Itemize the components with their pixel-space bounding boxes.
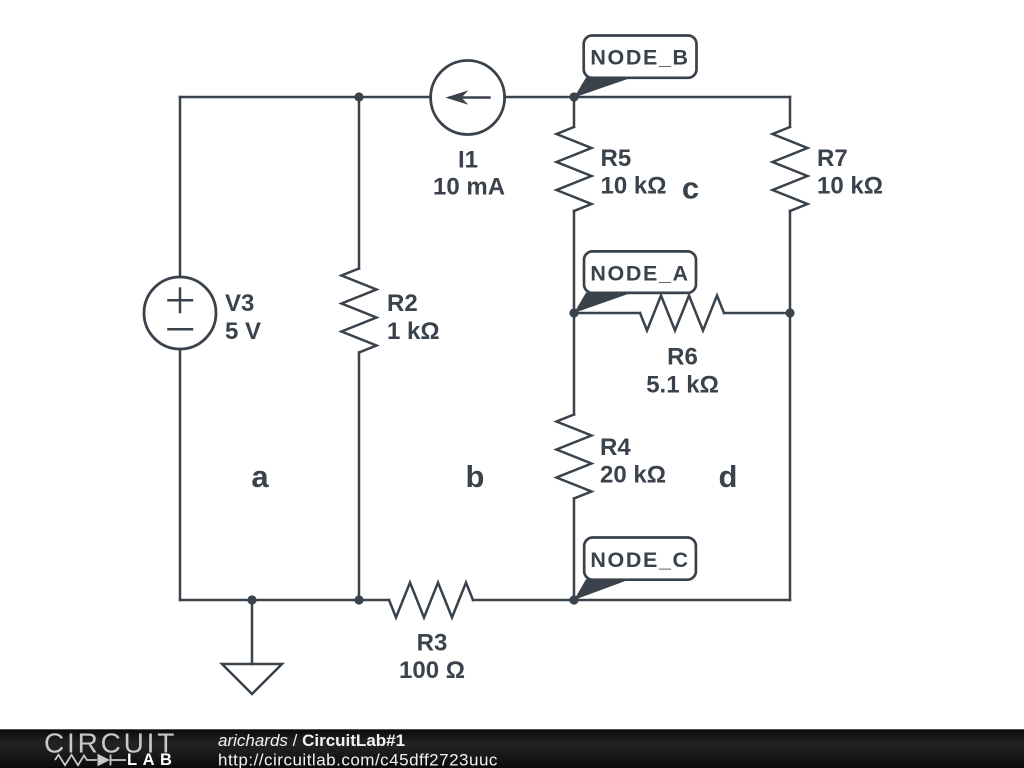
- NODE_B callout box: [584, 36, 697, 78]
- NODE_C callout box: [584, 538, 696, 580]
- svg-text:c: c: [682, 171, 699, 206]
- svg-text:NODE_B: NODE_B: [590, 46, 689, 70]
- ground triangle: [222, 664, 282, 694]
- footer bar: [0, 729, 1024, 768]
- svg-text:5.1 kΩ: 5.1 kΩ: [646, 371, 719, 398]
- wire R5-to-R4 middle segment through NODE_A: [573, 211, 576, 415]
- NODE_A callout tail: [574, 293, 632, 313]
- svg-text:R2: R2: [387, 290, 418, 317]
- svg-text:NODE_A: NODE_A: [590, 262, 689, 286]
- svg-text:b: b: [466, 459, 485, 494]
- resistor R6 zigzag: [640, 296, 724, 331]
- wire R6 left lead: [574, 312, 640, 315]
- junction node dot NODE_C: [569, 595, 578, 604]
- svg-text:10 kΩ: 10 kΩ: [817, 173, 883, 200]
- wire bottom-left: left corner to R3: [180, 599, 389, 602]
- I1 arrowhead: [445, 90, 468, 104]
- wire R5 top lead: [573, 97, 576, 127]
- svg-text:20 kΩ: 20 kΩ: [600, 462, 666, 489]
- wire top-left: V3 top to I1 left: [180, 96, 431, 99]
- svg-text:http://circuitlab.com/c45dff27: http://circuitlab.com/c45dff2723uuc: [218, 751, 498, 768]
- svg-text:5 V: 5 V: [225, 318, 261, 345]
- svg-text:I1: I1: [458, 147, 478, 174]
- wire top-right: I1 right to top-right corner: [505, 96, 790, 99]
- svg-text:1 kΩ: 1 kΩ: [387, 318, 440, 345]
- wire right branch: R7 bottom to bottom-right corner: [789, 211, 792, 600]
- current source I1 circle: [431, 61, 505, 135]
- wire right branch top lead: top wire to R7: [789, 97, 792, 127]
- junction node dot ground: [247, 595, 256, 604]
- junction node dot R2 bottom: [354, 595, 363, 604]
- svg-text:LAB: LAB: [127, 751, 177, 768]
- resistor R7 zigzag: [773, 127, 808, 211]
- resistor R3 zigzag: [389, 583, 473, 618]
- svg-text:100 Ω: 100 Ω: [399, 657, 465, 684]
- ground stub wire: [251, 600, 254, 664]
- logo resistor-diode icon: [55, 755, 126, 766]
- wire R6 right lead: [724, 312, 790, 315]
- svg-text:10 kΩ: 10 kΩ: [601, 173, 667, 200]
- wire left branch upper: top wire to V3: [179, 97, 182, 277]
- resistor R2 zigzag: [342, 269, 377, 353]
- V3 plus sign vertical: [179, 289, 182, 312]
- junction node dot R6 right: [785, 308, 794, 317]
- svg-text:V3: V3: [225, 290, 254, 317]
- voltage source V3 circle: [144, 277, 216, 349]
- resistor R4 zigzag: [557, 415, 592, 499]
- svg-text:a: a: [251, 459, 269, 494]
- NODE_C callout tail: [574, 579, 630, 600]
- wire R2 top lead: [358, 97, 361, 269]
- wire left branch lower: V3 to bottom wire: [179, 349, 182, 600]
- NODE_B callout tail: [574, 78, 632, 98]
- svg-text:R5: R5: [601, 145, 632, 172]
- wire bottom-right: R3 to bottom-right corner: [473, 599, 790, 602]
- resistor R5 zigzag: [557, 127, 592, 211]
- I1 arrow shaft: [450, 96, 490, 99]
- junction node dot NODE_A: [569, 308, 578, 317]
- V3 minus sign: [169, 328, 193, 331]
- svg-text:R4: R4: [600, 434, 631, 461]
- svg-text:d: d: [719, 459, 738, 494]
- svg-text:R6: R6: [667, 344, 698, 371]
- logo diode triangle: [98, 754, 111, 766]
- svg-text:R7: R7: [817, 145, 848, 172]
- svg-text:10 mA: 10 mA: [433, 174, 505, 201]
- wire R4 bottom lead: [573, 499, 576, 601]
- V3 plus sign: [169, 299, 193, 302]
- wire R2 bottom lead: [358, 353, 361, 601]
- svg-text:NODE_C: NODE_C: [590, 548, 689, 572]
- junction node dot NODE_B: [569, 92, 578, 101]
- junction node dot at R2 top: [354, 92, 363, 101]
- svg-text:arichards / CircuitLab#1: arichards / CircuitLab#1: [218, 731, 405, 750]
- svg-text:R3: R3: [417, 630, 448, 657]
- NODE_A callout box: [584, 251, 696, 293]
